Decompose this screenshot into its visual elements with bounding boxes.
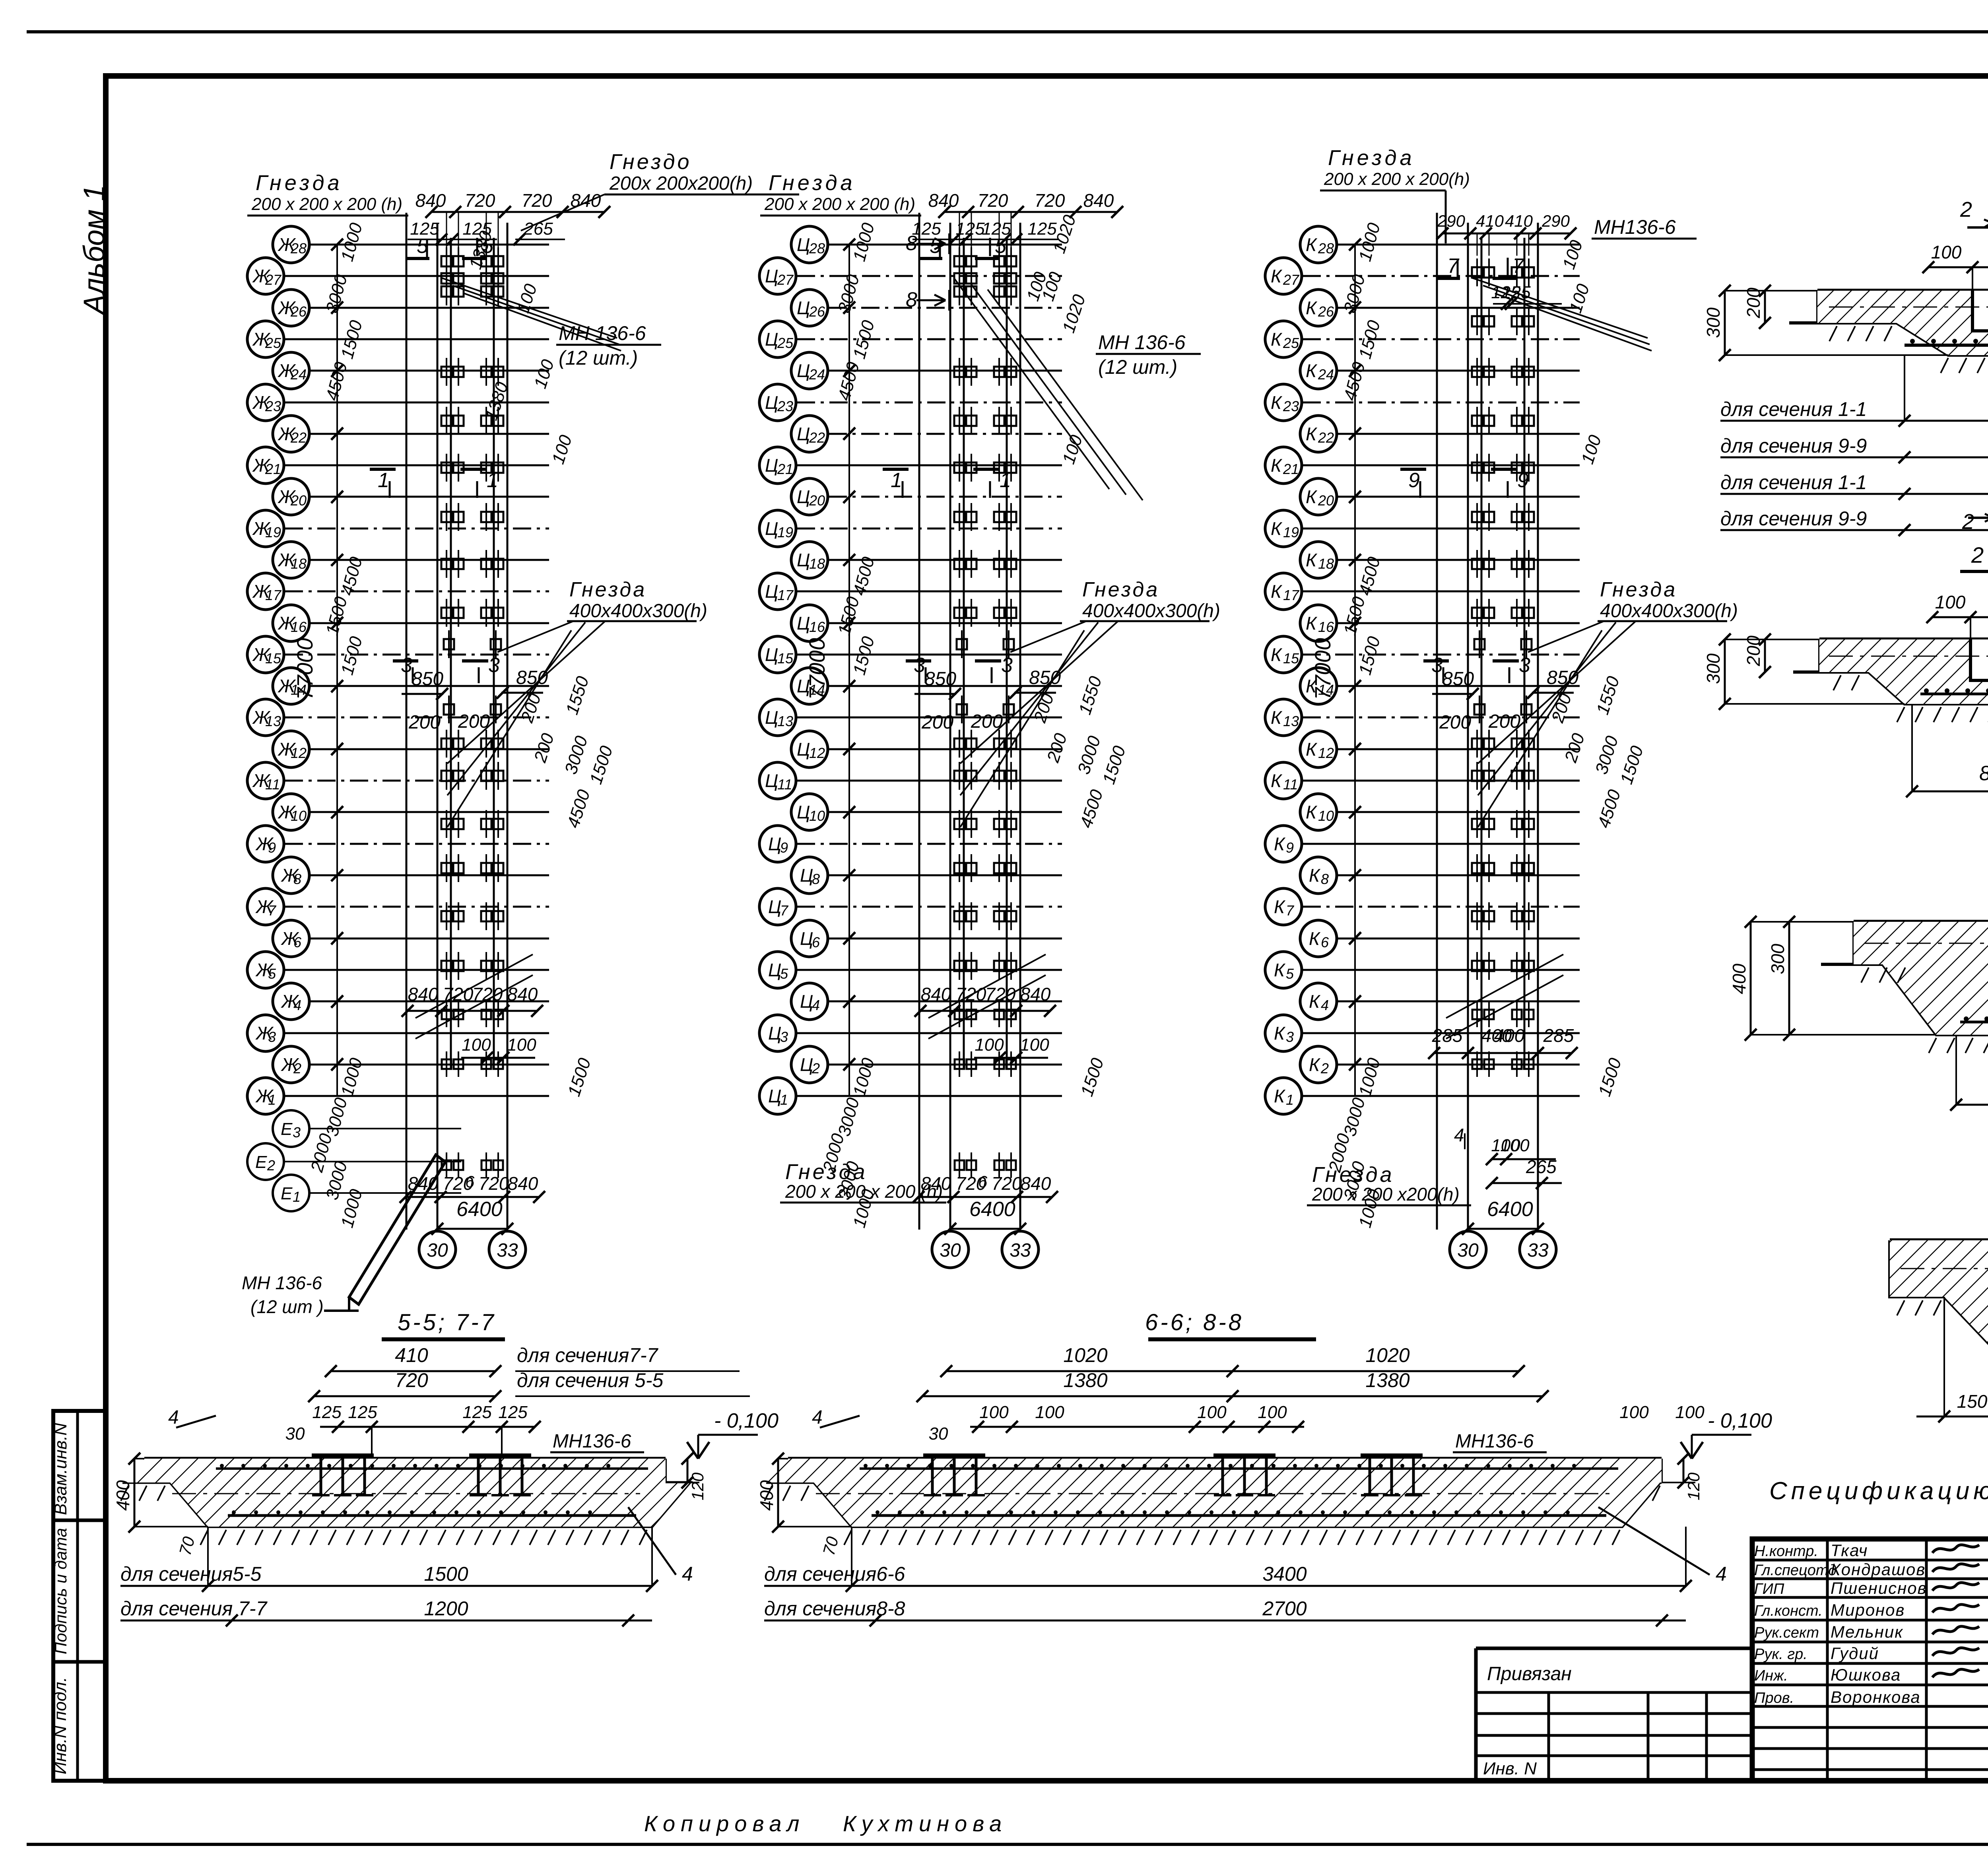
svg-text:27: 27 [265, 272, 282, 288]
svg-text:2: 2 [293, 1060, 301, 1076]
svg-text:720: 720 [479, 1173, 509, 1194]
svg-text:(12 шт ): (12 шт ) [250, 1296, 324, 1317]
svg-text:К: К [1306, 486, 1318, 507]
svg-text:для сечения 1-1: для сечения 1-1 [1720, 471, 1867, 494]
svg-text:720: 720 [985, 984, 1016, 1005]
svg-text:6: 6 [978, 1172, 988, 1191]
svg-text:К: К [1271, 266, 1283, 286]
svg-text:К: К [1271, 707, 1283, 728]
svg-text:200 х 200 х 200 (h): 200 х 200 х 200 (h) [251, 194, 402, 214]
svg-text:21: 21 [777, 461, 793, 477]
svg-text:для сечения 9-9: для сечения 9-9 [1720, 507, 1867, 530]
svg-text:Ц: Ц [797, 486, 810, 507]
svg-text:для сечения 5-5: для сечения 5-5 [517, 1369, 664, 1391]
svg-text:840: 840 [507, 984, 538, 1005]
svg-text:7: 7 [268, 902, 277, 919]
svg-text:13: 13 [265, 713, 281, 729]
svg-text:К: К [1274, 1086, 1286, 1106]
svg-text:Ц: Ц [768, 834, 781, 854]
svg-text:Ц: Ц [797, 802, 810, 822]
svg-text:100: 100 [507, 1035, 536, 1055]
svg-text:400х400х300(h): 400х400х300(h) [569, 600, 707, 622]
svg-text:720: 720 [522, 190, 552, 211]
svg-text:Ц: Ц [765, 392, 778, 413]
svg-text:3: 3 [268, 1029, 276, 1045]
svg-text:9: 9 [268, 839, 276, 856]
svg-text:- 0,100: - 0,100 [1708, 1409, 1772, 1432]
svg-text:3: 3 [1286, 1029, 1294, 1045]
svg-text:1: 1 [293, 1189, 301, 1205]
svg-text:18: 18 [1318, 556, 1334, 572]
svg-text:Е: Е [281, 1184, 293, 1203]
svg-text:77000: 77000 [292, 638, 317, 700]
svg-text:265: 265 [523, 219, 553, 239]
svg-text:100: 100 [975, 1035, 1004, 1055]
svg-text:200: 200 [1743, 288, 1764, 319]
svg-text:100: 100 [1258, 1403, 1287, 1422]
svg-text:125: 125 [1027, 219, 1057, 239]
svg-text:290: 290 [1541, 212, 1570, 230]
svg-text:3: 3 [914, 654, 925, 677]
svg-text:3: 3 [1001, 654, 1013, 677]
svg-text:для сечения 7-7: для сечения 7-7 [120, 1597, 268, 1620]
svg-text:15: 15 [265, 650, 282, 666]
svg-text:150: 150 [1957, 1391, 1988, 1412]
svg-text:100: 100 [979, 1403, 1009, 1422]
svg-text:Ц: Ц [765, 707, 778, 728]
svg-text:К: К [1271, 770, 1283, 791]
svg-text:100: 100 [462, 1035, 491, 1055]
svg-text:К: К [1271, 455, 1283, 476]
svg-text:9: 9 [1408, 469, 1420, 492]
svg-text:7: 7 [780, 902, 789, 919]
svg-text:100: 100 [1035, 1403, 1064, 1422]
svg-text:К: К [1271, 518, 1283, 539]
svg-text:6-6; 8-8: 6-6; 8-8 [1145, 1310, 1244, 1335]
svg-text:4: 4 [1321, 997, 1329, 1013]
svg-text:265: 265 [1526, 1156, 1557, 1177]
svg-text:13: 13 [1283, 713, 1299, 729]
svg-text:Кондрашов: Кондрашов [1831, 1560, 1926, 1579]
svg-text:3: 3 [293, 1124, 301, 1141]
svg-text:28: 28 [290, 240, 307, 256]
svg-text:5: 5 [268, 966, 276, 982]
svg-text:Ц: Ц [800, 1054, 813, 1075]
svg-text:720: 720 [978, 190, 1008, 211]
svg-text:840: 840 [928, 190, 959, 211]
svg-text:840: 840 [921, 984, 951, 1005]
svg-text:28: 28 [809, 240, 825, 256]
svg-text:Ц: Ц [797, 739, 810, 760]
svg-text:125: 125 [348, 1403, 377, 1422]
svg-text:Н.контр.: Н.контр. [1754, 1543, 1818, 1560]
svg-text:100: 100 [1020, 1035, 1049, 1055]
svg-text:2 - 2: 2 - 2 [1971, 542, 1988, 567]
svg-text:Воронкова: Воронкова [1831, 1688, 1921, 1706]
svg-text:К: К [1306, 424, 1318, 444]
svg-text:Ц: Ц [800, 865, 813, 886]
svg-text:Ц: Ц [768, 896, 781, 917]
svg-text:Гнезда: Гнезда [769, 171, 856, 195]
svg-text:5: 5 [1286, 966, 1294, 982]
svg-text:30: 30 [1457, 1240, 1479, 1261]
svg-text:Миронов: Миронов [1831, 1601, 1905, 1619]
svg-text:33: 33 [497, 1240, 518, 1261]
svg-text:290: 290 [1437, 212, 1466, 230]
svg-text:200 х 200 х 200 (h): 200 х 200 х 200 (h) [785, 1181, 943, 1202]
svg-text:840: 840 [415, 190, 446, 211]
svg-text:6400: 6400 [456, 1198, 503, 1221]
svg-text:13: 13 [777, 713, 793, 729]
svg-text:Ц: Ц [797, 424, 810, 444]
svg-text:К: К [1306, 802, 1318, 822]
svg-text:2700: 2700 [1262, 1597, 1307, 1620]
svg-text:Подпись и дата: Подпись и дата [51, 1528, 70, 1654]
svg-text:24: 24 [809, 366, 825, 383]
svg-text:Ц: Ц [768, 1023, 781, 1043]
svg-text:400х400х300(h): 400х400х300(h) [1600, 600, 1738, 622]
svg-text:8: 8 [906, 288, 917, 311]
svg-text:4: 4 [293, 997, 301, 1013]
svg-text:4: 4 [1716, 1563, 1727, 1585]
svg-text:12: 12 [809, 745, 825, 761]
svg-text:Ц: Ц [797, 297, 810, 318]
svg-text:Ц: Ц [797, 360, 810, 381]
svg-text:К: К [1274, 960, 1286, 980]
svg-text:К: К [1274, 834, 1286, 854]
svg-text:Гудий: Гудий [1831, 1644, 1879, 1663]
svg-text:МН 136-6: МН 136-6 [242, 1273, 322, 1293]
svg-text:850: 850 [924, 668, 956, 690]
svg-text:23: 23 [1283, 398, 1299, 414]
svg-text:19: 19 [265, 524, 281, 540]
svg-text:300: 300 [1767, 944, 1788, 974]
svg-text:15: 15 [1283, 650, 1299, 666]
svg-text:Альбом 1: Альбом 1 [78, 185, 111, 316]
svg-text:840: 840 [508, 1173, 538, 1194]
svg-text:25: 25 [777, 335, 794, 351]
svg-text:К: К [1306, 360, 1318, 381]
svg-text:5: 5 [780, 966, 788, 982]
svg-text:410: 410 [1476, 212, 1504, 230]
svg-text:200 х 200 х200(h): 200 х 200 х200(h) [1312, 1184, 1460, 1205]
svg-text:24: 24 [290, 366, 307, 383]
svg-text:4: 4 [1454, 1125, 1464, 1145]
svg-text:- 0,100: - 0,100 [714, 1409, 779, 1432]
svg-text:Ц: Ц [765, 770, 778, 791]
svg-text:30: 30 [929, 1424, 948, 1444]
svg-text:1200: 1200 [424, 1597, 468, 1620]
svg-text:840: 840 [408, 984, 439, 1005]
svg-text:840: 840 [1020, 984, 1051, 1005]
svg-text:Ц: Ц [765, 329, 778, 350]
svg-text:Пшениснов: Пшениснов [1831, 1579, 1927, 1597]
svg-text:Ц: Ц [768, 960, 781, 980]
svg-text:Ц: Ц [765, 581, 778, 602]
svg-text:К: К [1274, 896, 1286, 917]
svg-text:125: 125 [462, 1403, 492, 1422]
svg-text:К: К [1271, 581, 1283, 602]
svg-text:Гнезда: Гнезда [1312, 1163, 1394, 1187]
svg-text:850: 850 [1442, 668, 1474, 690]
svg-text:200 х 200 х 200 (h): 200 х 200 х 200 (h) [764, 194, 915, 214]
svg-text:11: 11 [1283, 776, 1298, 793]
svg-text:Е: Е [281, 1119, 293, 1139]
svg-text:800: 800 [1979, 762, 1988, 785]
svg-text:17: 17 [265, 587, 282, 603]
svg-text:15: 15 [777, 650, 794, 666]
svg-text:Ц: Ц [800, 991, 813, 1012]
svg-text:100: 100 [1935, 592, 1966, 612]
svg-text:125: 125 [312, 1403, 342, 1422]
svg-text:5-5; 7-7: 5-5; 7-7 [398, 1310, 496, 1335]
svg-text:100: 100 [1619, 1403, 1649, 1422]
svg-text:К: К [1309, 991, 1321, 1012]
svg-text:7: 7 [1512, 255, 1525, 278]
svg-text:300: 300 [1703, 307, 1724, 338]
svg-text:12: 12 [1318, 745, 1334, 761]
svg-text:МН 136-6: МН 136-6 [559, 322, 646, 344]
svg-text:5: 5 [995, 235, 1007, 258]
svg-text:Рук.сект: Рук.сект [1754, 1624, 1819, 1641]
svg-text:720: 720 [443, 984, 474, 1005]
svg-text:К: К [1306, 234, 1318, 255]
svg-text:8: 8 [293, 871, 301, 887]
svg-text:840: 840 [1083, 190, 1114, 211]
svg-text:1: 1 [487, 469, 498, 492]
svg-text:Ц: Ц [765, 455, 778, 476]
svg-text:16: 16 [1318, 619, 1334, 635]
svg-text:1020: 1020 [1063, 1344, 1107, 1366]
svg-text:для сечения6-6: для сечения6-6 [764, 1563, 905, 1585]
svg-text:Гнезда: Гнезда [569, 578, 646, 601]
svg-text:21: 21 [265, 461, 281, 477]
svg-text:(12 шт.): (12 шт.) [1098, 356, 1177, 378]
svg-text:9: 9 [780, 839, 788, 856]
svg-text:12: 12 [291, 745, 307, 761]
svg-text:77000: 77000 [1310, 638, 1335, 700]
svg-text:18: 18 [291, 556, 307, 572]
svg-text:285: 285 [1543, 1025, 1574, 1046]
svg-text:4: 4 [812, 997, 820, 1013]
svg-text:2: 2 [1320, 1060, 1329, 1076]
svg-text:К: К [1271, 329, 1283, 350]
svg-text:4: 4 [812, 1407, 823, 1428]
svg-text:6: 6 [812, 934, 820, 950]
svg-text:23: 23 [265, 398, 281, 414]
svg-text:17: 17 [1283, 587, 1300, 603]
svg-text:26: 26 [809, 303, 825, 320]
svg-text:285: 285 [1432, 1025, 1463, 1046]
svg-text:для сечения 1-1: для сечения 1-1 [1720, 398, 1867, 420]
svg-text:Ц: Ц [797, 234, 810, 255]
svg-text:720: 720 [956, 984, 986, 1005]
svg-text:К: К [1309, 1054, 1321, 1075]
svg-text:Ц: Ц [768, 1086, 781, 1106]
svg-text:25: 25 [265, 335, 282, 351]
svg-text:8: 8 [1321, 871, 1329, 887]
svg-text:Гнезда: Гнезда [1600, 578, 1677, 601]
svg-text:8: 8 [812, 871, 820, 887]
svg-text:200 х 200 х 200(h): 200 х 200 х 200(h) [1324, 169, 1470, 189]
svg-text:77000: 77000 [804, 638, 829, 700]
svg-text:27: 27 [1283, 272, 1300, 288]
svg-text:16: 16 [291, 619, 307, 635]
svg-text:МН136-6: МН136-6 [553, 1431, 631, 1452]
svg-text:для сечения 9-9: для сечения 9-9 [1720, 435, 1867, 457]
svg-text:23: 23 [777, 398, 793, 414]
svg-text:24: 24 [1318, 366, 1334, 383]
svg-text:410: 410 [1505, 212, 1533, 230]
svg-text:22: 22 [290, 429, 307, 446]
svg-text:(12 шт.): (12 шт.) [559, 347, 638, 369]
svg-text:2: 2 [812, 1060, 820, 1076]
svg-text:11: 11 [265, 776, 280, 793]
svg-text:Гнезда: Гнезда [1082, 578, 1159, 601]
svg-text:30: 30 [285, 1424, 305, 1444]
svg-text:1: 1 [780, 1092, 788, 1108]
svg-text:22: 22 [809, 429, 825, 446]
svg-text:9: 9 [1286, 839, 1294, 856]
svg-text:1380: 1380 [1365, 1369, 1409, 1391]
svg-text:для сечения7-7: для сечения7-7 [517, 1344, 659, 1366]
svg-text:720: 720 [465, 190, 495, 211]
svg-text:16: 16 [809, 619, 825, 635]
svg-text:8: 8 [906, 232, 917, 255]
svg-text:410: 410 [395, 1344, 428, 1366]
svg-text:28: 28 [1318, 240, 1334, 256]
svg-text:400: 400 [1494, 1025, 1525, 1046]
svg-text:Рук. гр.: Рук. гр. [1754, 1646, 1807, 1663]
svg-text:К: К [1271, 392, 1283, 413]
svg-text:100: 100 [1197, 1403, 1227, 1422]
svg-text:Мельник: Мельник [1831, 1622, 1903, 1641]
svg-text:19: 19 [777, 524, 793, 540]
svg-text:7: 7 [1286, 902, 1295, 919]
svg-text:20: 20 [809, 492, 825, 509]
svg-text:10: 10 [291, 808, 307, 824]
svg-text:1500: 1500 [424, 1563, 468, 1585]
svg-text:для сечения8-8: для сечения8-8 [764, 1597, 905, 1620]
svg-text:400: 400 [113, 1480, 133, 1511]
svg-text:22: 22 [1318, 429, 1334, 446]
svg-text:20: 20 [1318, 492, 1334, 509]
svg-text:4: 4 [682, 1563, 693, 1585]
svg-text:Привязан: Привязан [1487, 1663, 1572, 1685]
svg-text:21: 21 [1283, 461, 1299, 477]
svg-text:К: К [1306, 297, 1318, 318]
svg-text:Инв.N подл.: Инв.N подл. [50, 1677, 70, 1774]
svg-text:1: 1 [268, 1092, 276, 1108]
svg-text:120: 120 [688, 1472, 707, 1500]
svg-text:4: 4 [168, 1407, 179, 1428]
svg-text:120: 120 [1684, 1472, 1703, 1500]
svg-text:6: 6 [1321, 934, 1329, 950]
svg-text:Ткач: Ткач [1831, 1541, 1868, 1560]
svg-text:720: 720 [395, 1369, 428, 1391]
svg-text:20: 20 [290, 492, 307, 509]
svg-text:К: К [1309, 865, 1321, 886]
svg-text:720: 720 [992, 1173, 1022, 1194]
svg-text:200: 200 [1439, 712, 1471, 733]
svg-text:2: 2 [1962, 510, 1974, 534]
svg-text:1: 1 [378, 469, 389, 492]
svg-text:11: 11 [777, 776, 792, 793]
svg-text:Гнезда: Гнезда [1328, 146, 1415, 170]
svg-text:Инв. N: Инв. N [1483, 1759, 1537, 1778]
svg-text:100: 100 [1931, 242, 1962, 262]
svg-text:3: 3 [1519, 654, 1530, 677]
svg-text:200: 200 [921, 712, 953, 733]
svg-text:Гнездо: Гнездо [610, 150, 692, 174]
svg-text:17: 17 [777, 587, 794, 603]
svg-text:3: 3 [780, 1029, 788, 1045]
svg-text:6: 6 [465, 1172, 475, 1191]
svg-text:26: 26 [1318, 303, 1334, 320]
svg-text:Гл.спецотд: Гл.спецотд [1754, 1562, 1837, 1579]
svg-text:33: 33 [1010, 1240, 1031, 1261]
svg-text:К: К [1309, 928, 1321, 949]
svg-text:К: К [1271, 644, 1283, 665]
svg-text:Юшкова: Юшкова [1831, 1665, 1901, 1684]
svg-text:Спецификацию: Спецификацию [1769, 1477, 1988, 1505]
svg-text:19: 19 [1283, 524, 1299, 540]
svg-text:1020: 1020 [1365, 1344, 1409, 1366]
svg-text:ГИП: ГИП [1754, 1581, 1784, 1597]
svg-text:300: 300 [1703, 653, 1724, 684]
svg-text:1380: 1380 [1063, 1369, 1107, 1391]
svg-text:10: 10 [809, 808, 825, 824]
svg-text:400х400х300(h): 400х400х300(h) [1082, 600, 1220, 622]
svg-text:1: 1 [1286, 1092, 1294, 1108]
svg-text:Кухтинова: Кухтинова [843, 1811, 1007, 1836]
svg-text:3: 3 [401, 654, 412, 677]
svg-text:6400: 6400 [1487, 1198, 1533, 1221]
svg-text:Пров.: Пров. [1754, 1690, 1794, 1706]
svg-text:Копировал: Копировал [644, 1811, 805, 1836]
svg-text:850: 850 [412, 668, 443, 690]
svg-text:Ц: Ц [797, 613, 810, 633]
svg-text:400: 400 [1729, 964, 1749, 994]
svg-text:2: 2 [1960, 198, 1972, 221]
svg-text:400: 400 [756, 1480, 777, 1511]
svg-text:18: 18 [809, 556, 825, 572]
svg-text:10: 10 [1318, 808, 1334, 824]
svg-text:840: 840 [1021, 1173, 1051, 1194]
svg-text:720: 720 [1035, 190, 1065, 211]
svg-text:Ц: Ц [797, 550, 810, 570]
svg-text:К: К [1274, 1023, 1286, 1043]
svg-text:Е: Е [255, 1152, 267, 1172]
svg-text:1: 1 [1000, 469, 1011, 492]
svg-text:2: 2 [267, 1157, 275, 1174]
svg-text:33: 33 [1527, 1240, 1549, 1261]
svg-text:100: 100 [1675, 1403, 1705, 1422]
svg-text:25: 25 [1283, 335, 1299, 351]
svg-text:МН136-6: МН136-6 [1455, 1431, 1534, 1452]
svg-text:200: 200 [408, 712, 441, 733]
svg-text:3: 3 [1431, 654, 1443, 677]
svg-text:Ц: Ц [765, 266, 778, 286]
svg-text:Гл.конст.: Гл.конст. [1754, 1603, 1823, 1619]
svg-text:К: К [1306, 550, 1318, 570]
svg-text:100: 100 [1500, 1136, 1530, 1155]
svg-text:125: 125 [498, 1403, 528, 1422]
svg-text:3: 3 [488, 654, 500, 677]
svg-text:720: 720 [472, 984, 503, 1005]
svg-text:для сечения5-5: для сечения5-5 [120, 1563, 262, 1585]
svg-text:Ц: Ц [800, 928, 813, 949]
